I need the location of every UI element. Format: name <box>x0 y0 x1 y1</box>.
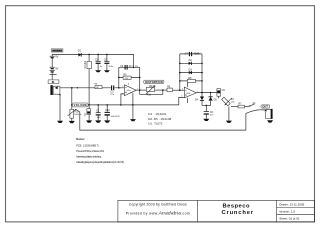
node C6 tap on battery rail <box>106 54 108 56</box>
svg-text:IN: IN <box>52 80 55 84</box>
node C2 tap on bias rail <box>97 104 99 106</box>
node U1a inverting input <box>118 87 120 89</box>
node ladder left D2 <box>179 63 181 65</box>
label IN <box>48 80 59 84</box>
ground below C5 <box>95 70 101 72</box>
potentiometer P2 <box>222 97 236 106</box>
wire C1 branch <box>88 105 90 121</box>
svg-text:3: 3 <box>122 94 123 96</box>
wire P2 ground leg <box>228 107 230 121</box>
capacitor C3 <box>110 85 114 96</box>
wire ladder left vertical <box>179 54 181 90</box>
label DISTORTION <box>144 80 164 84</box>
svg-text:DISTORTION: DISTORTION <box>145 80 163 84</box>
wire jack to volume pot vertical <box>71 88 73 110</box>
svg-text:R2 2k2: R2 2k2 <box>84 60 87 68</box>
ground below input jack <box>57 121 63 123</box>
svg-text:Notes:: Notes: <box>76 137 85 141</box>
output jack J2 <box>264 109 273 119</box>
svg-text:Cruncher: Cruncher <box>222 210 254 216</box>
wire U1b output row <box>196 92 217 94</box>
node R6 left <box>118 77 120 79</box>
node U1a noninverting on bias rail <box>120 104 122 106</box>
svg-text:Copyright 2003 by Gottfried Di: Copyright 2003 by Gottfried Divos <box>129 203 187 207</box>
resistor R6 <box>123 74 131 80</box>
node ladder right D3 <box>201 72 203 74</box>
diode D1 <box>78 50 82 57</box>
label battery <box>51 49 63 53</box>
diode D4 <box>195 97 204 102</box>
svg-text:10k lin: 10k lin <box>149 85 157 88</box>
capacitor C8 <box>204 111 215 116</box>
svg-text:Sheet: 01 of 01: Sheet: 01 of 01 <box>279 216 300 220</box>
ground below C8 <box>203 119 209 121</box>
svg-text:9V-BAT: 9V-BAT <box>52 49 62 52</box>
capacitor C4 <box>120 65 139 70</box>
node P1b wiper tie <box>162 89 164 91</box>
resistor R7 <box>238 103 245 108</box>
wire U1a power down to ground <box>132 93 134 119</box>
op-amp U1a <box>122 83 137 95</box>
op-amp U1b <box>181 87 197 98</box>
wire bypass bottom run <box>80 112 246 130</box>
title block <box>118 200 315 222</box>
resistor R8 <box>188 77 196 83</box>
svg-text:6: 6 <box>182 88 183 90</box>
wire bypass arc <box>246 110 265 114</box>
potentiometer P1a <box>68 109 83 118</box>
node U1a ground leg crossing bias rail <box>132 104 134 106</box>
wire D5 branch <box>210 93 212 106</box>
svg-text:OUT: OUT <box>262 105 268 109</box>
svg-text:U1 : TL072: U1 : TL072 <box>148 122 163 126</box>
node jack sleeve <box>59 94 60 95</box>
wire U1a noninverting to rail <box>121 94 125 105</box>
note parts list <box>148 112 171 126</box>
wire input signal row <box>60 87 124 89</box>
node R2 top at battery rail <box>88 54 90 56</box>
wire bias rail <box>72 97 185 105</box>
capacitor C5 <box>95 58 103 67</box>
svg-text:9V: 9V <box>55 56 58 59</box>
ground below P1a <box>69 121 75 123</box>
capacitor C7 <box>185 52 201 56</box>
diode D5 <box>209 97 218 102</box>
wire input jack sleeve to ground <box>59 94 61 120</box>
ground below C6 <box>104 70 110 72</box>
wire feedback right vertical <box>139 67 141 94</box>
svg-text:P1b: P1b <box>147 94 152 97</box>
input jack J1 <box>50 85 60 95</box>
wire ladder row C7 <box>180 53 202 55</box>
svg-text:Interesting frequency dependin: Interesting frequency depending distorti… <box>76 160 124 164</box>
wire C10 branch <box>106 105 108 121</box>
node input signal branch <box>71 87 73 89</box>
wire C5 branch <box>97 54 99 70</box>
svg-text:2: 2 <box>122 86 123 88</box>
node ladder right D2 <box>201 63 203 65</box>
notes block <box>76 137 124 164</box>
svg-text:4n7: 4n7 <box>129 65 134 68</box>
capacitor C6 <box>104 58 114 67</box>
wire ladder right vertical <box>201 54 203 93</box>
node C5 tap on battery rail <box>97 54 99 56</box>
title block copyright text <box>126 203 190 216</box>
wire U1b power stubs <box>186 83 188 104</box>
node C10 tap on bias rail <box>106 104 108 106</box>
svg-text:Bespeco: Bespeco <box>223 203 250 209</box>
svg-text:VOLUME: VOLUME <box>74 103 87 107</box>
node clamp bottom center <box>206 105 208 107</box>
svg-text:Interesting battery switching: Interesting battery switching <box>76 155 102 159</box>
wire diode clamp bottom row <box>202 104 211 106</box>
wire P1b wiper row <box>140 90 163 94</box>
wire ladder row R8 <box>180 80 202 82</box>
wire R2 column <box>88 54 90 105</box>
svg-text:100u: 100u <box>108 66 114 68</box>
resistor R5 <box>167 85 173 91</box>
wire U1a output <box>136 89 146 91</box>
ground below C10 <box>104 120 110 122</box>
resistor R2 <box>84 60 91 68</box>
label VOLUME <box>72 103 88 107</box>
capacitor C1 <box>85 109 91 117</box>
node U1b inverting input <box>179 89 181 91</box>
wire feedback left vertical <box>118 67 120 88</box>
wire C2 branch <box>97 105 99 121</box>
svg-text:1M: 1M <box>96 87 99 89</box>
svg-text:P1a and P1b is a Stereo Poti: P1a and P1b is a Stereo Poti <box>76 149 104 153</box>
wire C6 branch <box>106 54 108 70</box>
diode D3 <box>189 68 193 74</box>
capacitor C2 <box>96 109 102 118</box>
ground below U1a <box>130 119 136 121</box>
svg-text:Provided by www.Anadabia.com: Provided by www.Anadabia.com <box>126 211 190 216</box>
capacitor C9 <box>217 89 225 97</box>
node D5 tap <box>210 92 212 94</box>
battery B1 <box>50 56 55 72</box>
ground below C2 <box>95 120 101 122</box>
wire switch lever at output <box>250 104 254 106</box>
wire R5 to U1b inverting <box>173 89 185 91</box>
node U1a output <box>139 89 141 91</box>
battery labels 9V <box>55 56 58 71</box>
ground below P2 <box>226 121 232 123</box>
svg-text:7: 7 <box>197 91 198 93</box>
wire C8 branch <box>205 105 207 118</box>
ground below C1 <box>86 120 92 122</box>
svg-text:100u/16V: 100u/16V <box>111 116 121 118</box>
node R6 right <box>139 77 141 79</box>
capacitor C10 <box>105 109 121 118</box>
wire D4 branch <box>201 93 203 106</box>
wire P2 wiper to R7 <box>231 106 238 108</box>
node volume pot top on bias rail <box>71 104 73 106</box>
svg-text:9V: 9V <box>55 68 58 71</box>
node ladder right R8 <box>201 80 203 82</box>
svg-text:470p/63V: 470p/63V <box>193 53 200 56</box>
wire R6 feedback row <box>119 76 140 78</box>
svg-text:D2..D5 : 1N4148: D2..D5 : 1N4148 <box>148 117 171 121</box>
node C1 tap on bias rail <box>88 104 90 106</box>
node U1b output D4 tap <box>201 92 203 94</box>
wire C9 to P2 <box>218 96 220 98</box>
svg-text:Version: 1.0: Version: 1.0 <box>279 209 295 213</box>
wire R7 to switch <box>245 106 249 108</box>
label OUT <box>261 105 270 109</box>
svg-text:5: 5 <box>181 95 182 97</box>
title block project name <box>222 203 254 216</box>
node input wire junction <box>77 87 78 88</box>
node battery rail to C4 row <box>133 67 135 69</box>
svg-text:D1 : 1N4001: D1 : 1N4001 <box>148 112 167 116</box>
wire C4 feedback row <box>119 66 140 68</box>
svg-text:1: 1 <box>137 88 138 90</box>
resistor R4 <box>94 84 102 90</box>
wire ladder row D2 <box>180 62 202 64</box>
svg-text:Drawn: 13.11.2005: Drawn: 13.11.2005 <box>279 203 304 207</box>
svg-text:C10: C10 <box>105 109 110 112</box>
node ladder left D3 <box>179 72 181 74</box>
wire volume pot bottom <box>71 118 73 121</box>
wire switch contact bar <box>50 73 57 75</box>
wire ladder row D3 <box>180 72 202 74</box>
wire battery rail top <box>52 54 133 67</box>
wire battery column <box>51 54 53 79</box>
potentiometer P1b <box>146 85 156 97</box>
wire P1b right to R5 <box>155 89 167 91</box>
switch S1 contact <box>249 102 256 107</box>
ground below output jack <box>267 120 273 122</box>
svg-text:PCB : 2.20.B (HBS 7): PCB : 2.20.B (HBS 7) <box>76 144 99 148</box>
svg-text:100k lin: 100k lin <box>74 114 82 116</box>
diode D2 <box>189 59 193 65</box>
node ladder left R8 <box>179 80 181 82</box>
title block info rows <box>279 203 304 221</box>
